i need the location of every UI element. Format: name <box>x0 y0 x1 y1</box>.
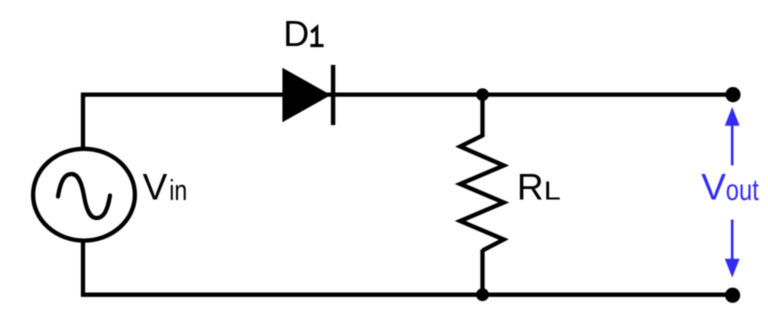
resistor RL zigzag <box>460 136 504 251</box>
terminal dot: bottom output <box>725 288 740 303</box>
diode D1 triangle (anode) <box>282 68 331 122</box>
AC voltage source circle <box>33 149 135 241</box>
wire: bottom rail from source to output terminal <box>83 243 733 295</box>
wire: resistor top stub <box>480 95 484 137</box>
svg-text:out: out <box>726 174 760 207</box>
svg-text:V: V <box>143 166 168 207</box>
sine wave symbol inside source <box>58 174 110 218</box>
diode D1 cathode bar <box>331 65 335 125</box>
junction node: bottom of resistor <box>476 288 489 301</box>
junction node: top of resistor <box>476 88 489 101</box>
svg-text:V: V <box>701 167 726 208</box>
wire: top rail from source to output terminal <box>83 95 733 147</box>
wire: resistor bottom stub <box>480 250 484 295</box>
label D1 subscript 1 (footed digit) <box>310 27 323 45</box>
svg-text:L: L <box>544 176 561 206</box>
svg-text:in: in <box>169 175 187 207</box>
arrow down (Vout bottom) <box>731 220 734 260</box>
svg-text:D: D <box>283 13 309 54</box>
svg-text:R: R <box>517 166 544 207</box>
terminal dot: top output <box>725 87 740 102</box>
arrow up (Vout top) <box>731 125 734 165</box>
